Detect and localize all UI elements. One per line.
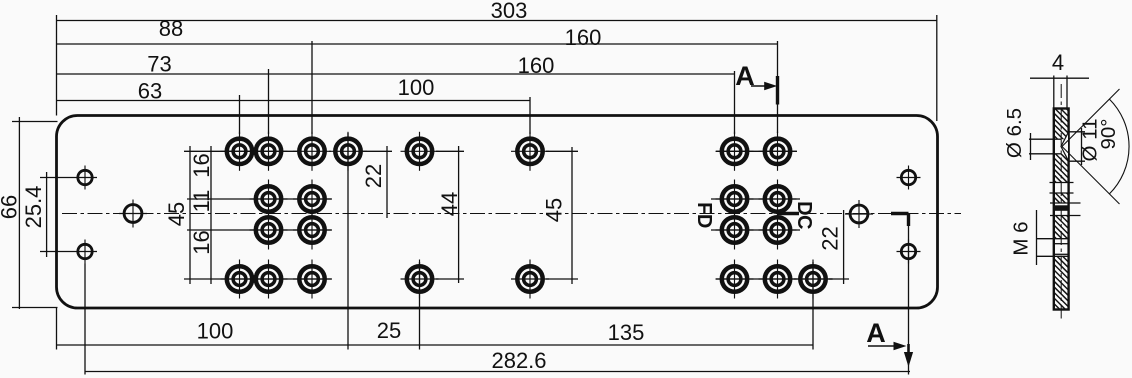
M6 thread lines — [1036, 239, 1069, 257]
svg-text:303: 303 — [491, 0, 528, 23]
90 degree angle lines — [1062, 89, 1120, 204]
row line second row — [187, 198, 332, 200]
hole row4 q2 — [759, 260, 797, 299]
horizontal centerline — [62, 213, 961, 215]
extension lines thickness 4 — [1054, 76, 1067, 109]
small hole right top — [897, 166, 921, 190]
dimension line 4 — [1030, 77, 1089, 79]
dimension line 22 right — [843, 210, 845, 284]
extension line right edge top — [936, 15, 938, 121]
extension line small hole top — [40, 177, 73, 179]
dimension line 303 — [57, 20, 937, 22]
extension line col 73 — [268, 69, 270, 134]
side hole dark plug — [1054, 205, 1069, 211]
extension line small hole bottom — [40, 251, 73, 253]
svg-text:73: 73 — [147, 51, 171, 76]
extension line col 25 bottom — [419, 262, 421, 350]
svg-text:160: 160 — [565, 25, 602, 50]
hole row2 c2 — [250, 180, 288, 219]
extension line 45 right top — [546, 150, 578, 152]
svg-text:160: 160 — [518, 53, 555, 78]
hole row4 c3 — [293, 260, 331, 299]
svg-text:44: 44 — [437, 192, 462, 216]
extension line col 63 — [239, 95, 241, 134]
side hole band lines — [1050, 183, 1074, 194]
svg-text:88: 88 — [159, 16, 183, 41]
countersink cone — [1061, 132, 1069, 161]
hole row4 c1 — [221, 260, 259, 299]
dimension line 66 — [18, 117, 20, 309]
row line right cluster second — [711, 198, 800, 200]
extension line left edge top — [56, 15, 58, 116]
dimension line 16-11-16 — [210, 146, 212, 284]
hole row3 q2 — [759, 211, 797, 250]
countersink hole bore lines — [1053, 139, 1062, 154]
dimension line 73+160 — [57, 73, 735, 75]
svg-text:22: 22 — [361, 164, 386, 188]
svg-text:FD: FD — [693, 202, 715, 228]
svg-text:135: 135 — [608, 320, 645, 345]
hole row1 q1 — [716, 132, 754, 171]
hole row2 c3 — [293, 180, 331, 219]
section line A bend right — [891, 214, 909, 227]
svg-text:11: 11 — [189, 190, 214, 213]
dimension line dia6.5 — [1029, 133, 1054, 160]
svg-text:45: 45 — [541, 198, 566, 222]
svg-text:25.4: 25.4 — [21, 186, 46, 229]
hole row2 q1 — [716, 180, 754, 219]
row line right cluster top — [716, 150, 797, 152]
small hole right bottom — [897, 240, 921, 264]
extension line left edge bottom — [56, 308, 58, 350]
svg-text:63: 63 — [138, 78, 162, 103]
svg-text:45: 45 — [164, 202, 189, 226]
extension line 45 right bottom — [546, 278, 578, 280]
row line third row — [187, 229, 332, 231]
dimension line 44 — [458, 146, 460, 283]
section line A vertical right — [908, 226, 910, 375]
section line A top thick segment — [776, 76, 779, 105]
extension line col 160 lower — [734, 71, 736, 134]
dimension line 22 left — [386, 146, 388, 218]
row line right cluster bottom — [716, 278, 833, 280]
svg-text:100: 100 — [197, 318, 234, 343]
extension line col 88 — [311, 41, 313, 134]
section bar hatching — [837, 109, 1132, 310]
hole row1 m1 — [401, 132, 439, 171]
section arrow A bottom horizontal — [868, 342, 907, 350]
svg-text:Ø 11: Ø 11 — [1078, 119, 1101, 162]
svg-text:25: 25 — [377, 318, 401, 343]
hole row4 q3 — [794, 260, 832, 299]
svg-text:A: A — [866, 318, 886, 348]
dimension line 282.6 — [85, 371, 910, 373]
section arrow A top — [751, 82, 777, 90]
hole row2 q2 — [759, 180, 797, 219]
section bar outline — [1054, 109, 1069, 310]
extension line col 135 bottom — [812, 262, 814, 350]
svg-text:282.6: 282.6 — [491, 348, 546, 373]
hole row1 c3 — [293, 132, 331, 171]
side hole band 2 lines — [1050, 203, 1081, 216]
extension line plate bottom left — [12, 307, 58, 309]
svg-text:Ø 6.5: Ø 6.5 — [1003, 108, 1026, 158]
svg-text:66: 66 — [0, 195, 21, 219]
extension line small hole left bottom — [84, 264, 86, 375]
hole row1 q2 — [759, 132, 797, 171]
section line A bend left — [778, 212, 800, 215]
hole row4 m2 — [511, 260, 549, 299]
svg-text:22: 22 — [817, 226, 842, 250]
svg-text:A: A — [735, 61, 755, 91]
hole row1 c4 — [329, 132, 367, 171]
dimension line dia11 — [1069, 128, 1085, 165]
90 degree angle arc — [1109, 99, 1129, 194]
dimension line 100+25+135 — [57, 344, 814, 346]
extension line 22 left top — [362, 150, 392, 152]
small hole left bottom — [73, 240, 97, 264]
medium hole right center — [845, 200, 873, 228]
hole row3 c2 — [250, 211, 288, 250]
extension line col 100 top — [529, 97, 531, 134]
section bar centerline — [1060, 84, 1062, 322]
dimension line 45 left — [189, 146, 191, 284]
dimension line 88+160 — [57, 43, 778, 45]
section line A bottom thick — [907, 344, 910, 354]
hole row1 m2 — [511, 132, 549, 171]
dimension line M6 — [1036, 210, 1038, 265]
row line bottom row — [184, 278, 332, 280]
svg-text:M 6: M 6 — [1009, 221, 1032, 255]
medium hole left center — [119, 200, 147, 228]
svg-text:100: 100 — [398, 75, 435, 100]
hole row4 c2 — [250, 260, 288, 299]
row line right cluster third — [711, 229, 800, 231]
hole row1 c2 — [250, 132, 288, 171]
svg-text:16: 16 — [189, 153, 214, 177]
dimension line 45 right — [571, 147, 573, 284]
hole row4 m1 — [401, 260, 439, 299]
extension line plate top left — [12, 121, 58, 123]
extension line 44 bottom — [436, 278, 464, 280]
hole row3 c3 — [293, 211, 331, 250]
small hole left top — [73, 166, 97, 190]
dimension line 63+100 — [57, 100, 531, 102]
dimension line 25.4 — [46, 172, 48, 257]
hole row3 q1 — [716, 211, 754, 250]
hole row1 c1 — [221, 132, 259, 171]
extension line col 160 upper / section — [777, 41, 779, 133]
extension line col4 long — [347, 133, 349, 350]
extension line 44 top — [436, 150, 464, 152]
row line top row — [184, 150, 300, 152]
svg-text:4: 4 — [1052, 50, 1064, 75]
extension line 22 right bottom — [829, 278, 849, 280]
section arrow A bottom vertical — [904, 352, 913, 367]
mounting plate outline (front view) — [57, 116, 938, 309]
hole row4 q1 — [716, 260, 754, 299]
svg-text:16: 16 — [189, 230, 214, 254]
